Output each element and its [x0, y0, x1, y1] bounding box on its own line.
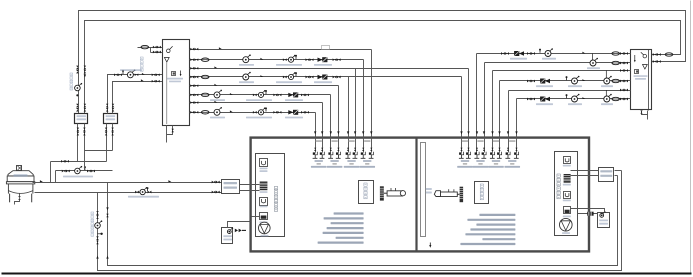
right chamber angle valve glyph pipe 8 [514, 152, 519, 159]
cluster label [276, 81, 302, 83]
wire: left chamber pipe 5 inside drop [348, 137, 350, 153]
left chamber pair tag 3 [348, 140, 354, 142]
wire: AHU-R coil to indoor unit upper [571, 170, 599, 172]
heat exchanger cluster [283, 55, 297, 63]
left chamber valve pipe 2 [321, 148, 323, 151]
wire: AHU-R coil to indoor unit lower [571, 175, 599, 177]
balance valve label [510, 58, 527, 60]
balance valve label [536, 103, 553, 105]
wire: link tower line B [55, 171, 57, 183]
valve pair below pump house 2 right [111, 128, 114, 136]
balance valve [318, 75, 328, 79]
valve pair R2 [620, 62, 628, 65]
left chamber valve pipe 7 [362, 148, 364, 151]
AHU-R icon2 label [563, 184, 571, 186]
flex oval on stub [141, 45, 149, 48]
right chamber valve pipe 5 [491, 148, 493, 151]
wire: right chamber pipe 7 inside drop [508, 137, 510, 153]
text block: right chamber specs [460, 214, 515, 245]
flow arrow up [106, 256, 108, 259]
flow arrow up [96, 256, 98, 259]
AHU-R icon1 label [563, 165, 571, 167]
pump label [239, 81, 254, 83]
flow arrow [142, 73, 145, 75]
valve pair above pump house 2 right [112, 104, 115, 112]
AHU-L icon2 label [260, 191, 268, 193]
cluster label [246, 99, 272, 101]
valve pair [501, 52, 509, 55]
wire: outdoor unit to chamber lower [240, 190, 251, 192]
label in U2 line1 [634, 75, 648, 77]
wire: drop x=330.8 [330, 95, 332, 137]
heat exchanger cluster [253, 107, 267, 115]
pump label [210, 117, 225, 119]
left chamber flow arrow pipe 6 [354, 131, 356, 134]
right chamber pair label row1 1 [461, 160, 469, 162]
make-up tank label line1 [223, 235, 232, 237]
pump [214, 90, 222, 98]
right chamber pair label row2 2 [478, 163, 482, 165]
wire: AHU-R to tank top [571, 209, 605, 213]
right chamber flow arrow pipe 1 [460, 131, 462, 134]
heat exchanger cluster [253, 90, 267, 98]
left chamber pair tag 1 [316, 140, 322, 142]
AHU-R icon3 label [563, 200, 571, 202]
left chamber pair label row3 4 [359, 166, 375, 168]
flexible connector (hatched) [587, 212, 593, 216]
wire: cooling water supply header y=182 [33, 182, 222, 184]
pump [572, 76, 580, 84]
left chamber flow arrow pipe 1 [314, 131, 316, 134]
test coil device left chamber [380, 186, 406, 200]
wire: left chamber pipe 4 inside drop [338, 137, 340, 153]
valve pair [273, 94, 281, 97]
wire: left chamber pipe 8 inside drop [371, 137, 373, 153]
right chamber flow arrow pipe 2 [467, 131, 469, 134]
valve pair [306, 76, 314, 79]
right chamber angle valve glyph pipe 3 [474, 152, 479, 159]
U1 drain valve [171, 129, 174, 133]
flex oval [201, 111, 209, 114]
label: cooling tower [14, 174, 28, 177]
right chamber pair label row1 4 [508, 160, 516, 162]
AHU-R icon 2 (coil, hatched) [564, 174, 571, 183]
pump [545, 48, 553, 56]
label in U1 line1 [167, 78, 183, 80]
box: pump house 2 [104, 114, 118, 124]
left chamber pair label row1 4 [363, 160, 371, 162]
label above pump y=74.8 [120, 69, 142, 71]
wire: pump house 2 right drop [112, 124, 114, 151]
box: pump house 1 [75, 114, 88, 124]
wire: row C y=68.3 [190, 68, 469, 70]
AHU-L fan [259, 222, 271, 234]
flex oval R1 [612, 52, 620, 55]
valve pair R3 [620, 69, 628, 72]
left chamber pair label row2 2 [332, 163, 336, 165]
make-up pump right [600, 211, 606, 217]
wire: brine house link line y=161.3 [51, 161, 107, 163]
pump R4b stem [605, 71, 607, 79]
wire: inner top loop pipe (cooling loop return) [85, 21, 681, 114]
valve pair [527, 52, 535, 55]
wire: outdoor unit to AHU-L coil upper [240, 184, 260, 186]
wire: right chamber pipe 2 inside drop [468, 137, 470, 153]
left chamber flow arrow pipe 3 [330, 131, 332, 134]
pump R4b label [601, 85, 613, 87]
AHU-L icon 1 (sensor) [260, 159, 268, 167]
gauge circle in U1 [167, 46, 173, 52]
valve actuator dot [84, 166, 86, 170]
right chamber pair label row1 2 [476, 160, 484, 162]
AHU-L icon3 label [260, 206, 268, 208]
pump on y=171 [75, 166, 83, 174]
AHU-R fan [560, 218, 573, 231]
wire: right chamber pipe 1 inside drop [461, 137, 463, 153]
wire: drop x=348 [348, 77, 350, 137]
AHU-R icon 3 (sensor) [564, 192, 571, 199]
wire: drop x=371.3 [371, 50, 373, 137]
valve pair on x=84.9 feed [84, 66, 87, 74]
pump R2 stem [592, 54, 594, 61]
valve pair at manifold [190, 111, 198, 114]
pump R6b [604, 94, 612, 102]
black arrows beside make-up tank [235, 229, 246, 233]
line y=171 with pump [56, 170, 113, 172]
make-up tank R label line1 [599, 220, 608, 222]
left chamber valve pipe 3 [330, 148, 332, 151]
wire: outdoor unit to chamber upper [240, 184, 251, 186]
flow arrow down [106, 207, 108, 210]
left chamber angle valve glyph pipe 5 [345, 152, 350, 159]
valve pair at outdoor unit inlet (lower) [212, 191, 220, 194]
pump on riser [95, 220, 103, 228]
junction dot with stem [98, 233, 103, 235]
box: air handling column left [256, 154, 285, 237]
valve pair [333, 76, 341, 79]
label: left of U1 (vertical) [140, 57, 143, 71]
valve pair below pump house 1 left [77, 128, 80, 136]
AHU-L fan label [261, 235, 269, 237]
indoor unit label line2 [600, 175, 612, 177]
flow arrow [141, 79, 144, 81]
wire: drop x=461.5 [461, 77, 463, 137]
outdoor unit label line1 [224, 182, 238, 184]
right chamber angle valve glyph pipe 6 [497, 152, 502, 159]
label: riser pipe name (vertical) [91, 212, 94, 236]
frame bottom border [2, 273, 692, 275]
heat exchanger cluster [283, 72, 297, 80]
icon: sensor block in U2 [635, 70, 639, 74]
wire: right chamber pipe 8 inside drop [516, 137, 518, 153]
wire: pump house 2 left drop [106, 124, 108, 162]
valve pair on stub y=74.8 [114, 73, 122, 76]
valve pair at manifold [190, 58, 198, 61]
AHU-R icon 4 (heater) [564, 207, 571, 214]
label: test unit (vertical) right [480, 184, 483, 200]
right chamber flow arrow pipe 8 [515, 131, 517, 134]
right chamber pair label row3 1 [457, 166, 473, 168]
label pump house 2 line2 [106, 118, 116, 120]
balance valve label [536, 85, 553, 87]
pump cluster on return header [135, 187, 151, 195]
valve pair y=47.1 [153, 46, 161, 49]
AHU-L icon 2 (coil, hatched) [260, 182, 268, 191]
valve pair on riser lower [96, 236, 99, 244]
flow arrow down [84, 74, 86, 77]
wire: U1 drain stub [167, 126, 173, 135]
gauge circle in U2 [641, 52, 647, 58]
valve pair y=52 [153, 51, 161, 54]
valve pair [301, 111, 309, 114]
flow arrow [582, 79, 585, 81]
valve pair at manifold [620, 52, 628, 55]
pump on stub y=74.8 [127, 70, 135, 78]
wire: AHU-R to tank left [578, 213, 598, 215]
right chamber valve pipe 7 [507, 148, 509, 151]
label: manual damper line1 [426, 188, 432, 190]
balance valve label [314, 64, 332, 66]
down arrow in U2 [634, 55, 636, 62]
valve pair at outdoor unit inlet (upper) [212, 181, 220, 184]
wire: row E y=85.7 [190, 85, 339, 87]
wire: right chamber pipe 4 inside drop [484, 137, 486, 153]
valve pair above pump house 2 left [106, 104, 109, 112]
flex oval [201, 75, 209, 78]
left chamber pair label row3 3 [344, 166, 360, 168]
wire: drop x=315.2 [315, 113, 317, 137]
wire: row G y=102.6 [190, 102, 323, 104]
flow arrow [260, 58, 263, 60]
left chamber angle valve glyph pipe 7 [361, 152, 366, 159]
flex oval [201, 58, 209, 61]
left chamber pair label row3 1 [311, 166, 327, 168]
AHU-L icon1 label line2 [260, 170, 268, 172]
level indicator triangle in U1 [164, 58, 169, 63]
pump label [210, 99, 225, 101]
wire: stub jog [150, 48, 152, 53]
make-up pump left [227, 227, 233, 233]
box: glycol distributor left U1 [163, 40, 190, 126]
label: make-up pipe (vertical) [70, 73, 73, 90]
pump label [239, 64, 254, 66]
right chamber pair label row2 1 [463, 163, 467, 165]
level triangle in U2 [643, 65, 648, 70]
AHU-R icon4 label [563, 216, 571, 218]
right chamber pair label row3 4 [504, 166, 520, 168]
right chamber pair tag 3 [493, 140, 499, 142]
wire: drop x=322.2 [322, 103, 324, 137]
pump R2 [590, 58, 598, 66]
left chamber flow arrow pipe 2 [321, 131, 323, 134]
AHU-L icon 4 (heater) [260, 213, 268, 220]
balance valve [318, 58, 328, 62]
flow arrow [230, 93, 233, 95]
wire: left chamber pipe 3 inside drop [330, 137, 332, 153]
wire: pump house 1 left drop [77, 124, 79, 162]
valve pair at distributor [152, 73, 160, 76]
valve pair at manifold [620, 98, 628, 101]
wire: left chamber pipe 6 inside drop [355, 137, 357, 153]
label: manual damper line2 [426, 192, 432, 194]
flow arrow row A [219, 47, 222, 49]
valve pair [333, 58, 341, 61]
text block: left chamber specs [318, 212, 364, 243]
flow arrow [260, 75, 263, 77]
wire: distributor stub to pump house 2 right [113, 82, 163, 114]
wire: indoor unit right stub lower [615, 175, 618, 177]
wire: indoor unit right stub upper [615, 170, 622, 172]
balance valve label [285, 117, 303, 119]
left chamber valve pipe 8 [370, 148, 372, 151]
left chamber valve pipe 5 [347, 148, 349, 151]
wire: drop x=492.5 [492, 71, 494, 137]
pump label [568, 85, 582, 87]
valve pair above pump house 1 right [84, 104, 87, 112]
valve pair on make-up riser [96, 211, 99, 219]
cluster label [276, 64, 302, 66]
flow arrow row G [214, 101, 217, 103]
valve pair at manifold [620, 80, 628, 83]
flow arrow [40, 180, 43, 182]
AHU-L icon4 label [260, 221, 268, 223]
left chamber flow arrow pipe 8 [370, 131, 372, 134]
box: test unit right chamber [475, 182, 489, 204]
label: air handling unit (vertical) right [557, 174, 560, 199]
label in U2 line2 [635, 78, 646, 80]
wire: bottom run to indoor condenser (return) [98, 171, 622, 271]
wire: make-up to AHU-L heater [252, 216, 260, 218]
pump R6b stem [605, 90, 607, 96]
right chamber valve pipe 8 [515, 148, 517, 151]
left chamber pair label row1 2 [330, 160, 338, 162]
wire: drop x=484 [484, 63, 486, 137]
right chamber valve pipe 3 [476, 148, 478, 151]
label in U1 line2 [169, 81, 181, 83]
left chamber valve pipe 6 [354, 148, 356, 151]
flow arrow R1 [582, 52, 585, 54]
wire: left chamber pipe 2 inside drop [322, 137, 324, 153]
left chamber flow arrow pipe 5 [347, 131, 349, 134]
damper panel on divider [421, 143, 426, 237]
wire: U1 expansion stub y=47.1 [138, 47, 163, 49]
wire: link tower line A [50, 162, 52, 183]
left chamber pair label row2 1 [317, 163, 321, 165]
small arrow bottom of divider [429, 243, 431, 248]
pump R6b label [601, 103, 613, 105]
valve [135, 74, 139, 77]
right chamber pair label row3 3 [488, 166, 504, 168]
wire: row A y=49.1 [190, 49, 372, 51]
tower drain pipe with valve [19, 194, 21, 197]
balance valve (mirrored) [540, 97, 550, 101]
wire: row R2 y=63 [485, 62, 631, 64]
right chamber pair label row3 2 [473, 166, 489, 168]
wire: drop x=499.5 [499, 81, 501, 137]
balance valve label [285, 99, 303, 101]
label: air handling unit (vertical) left [274, 187, 277, 212]
right chamber flow arrow pipe 5 [491, 131, 493, 134]
right chamber flow arrow pipe 3 [476, 131, 478, 134]
valve pair y=171 [62, 170, 70, 173]
make-up tank label line2 [223, 239, 232, 241]
right chamber pair tag 2 [477, 140, 483, 142]
flex oval [612, 79, 620, 82]
right chamber pair label row2 3 [494, 163, 498, 165]
valve pair at manifold [190, 76, 198, 79]
left chamber valve pipe 1 [314, 148, 316, 151]
make-up tank R label line2 [599, 223, 608, 225]
right chamber angle valve glyph pipe 4 [481, 152, 486, 159]
label pump house 1 line1 [77, 115, 87, 117]
frame right border [690, 1, 692, 274]
cooling tower CT1 [6, 166, 34, 203]
right chamber angle valve glyph pipe 1 [459, 152, 464, 159]
flow arrow [168, 180, 171, 182]
pump R2 label [587, 67, 600, 69]
pump [572, 94, 580, 102]
pump [243, 72, 251, 80]
pump [243, 54, 251, 62]
wire: pump house 1 right drop [84, 124, 86, 171]
right chamber valve pipe 1 [460, 148, 462, 151]
box: environmental chamber (double) [251, 138, 589, 252]
right chamber valve pipe 6 [498, 148, 500, 151]
test coil device right chamber [434, 187, 463, 203]
box: indoor condensing unit [599, 168, 614, 182]
right chamber flow arrow pipe 7 [507, 131, 509, 134]
right chamber flow arrow pipe 6 [498, 131, 500, 134]
label: test unit (vertical) left [364, 183, 367, 199]
AHU-L icon 3 (sensor) [260, 198, 268, 206]
wire: row R5 y=90 [509, 90, 631, 92]
wire: row R1 y=53.5 [477, 53, 631, 55]
left chamber pair tag 4 [364, 140, 370, 142]
label pump house 1 line2 [77, 118, 87, 120]
valve pair [306, 58, 314, 61]
wire: U2 drain [647, 111, 649, 120]
flow arrow [230, 110, 233, 112]
flex oval U2 right [665, 53, 673, 56]
valve pair at distributor y=81.2 [152, 80, 160, 83]
actuator dot [539, 49, 541, 53]
tag box on row A [322, 46, 330, 50]
wire: drop x=516.5 [516, 99, 518, 137]
balance valve label [314, 81, 332, 83]
left chamber pair label row2 3 [349, 163, 353, 165]
wire: right chamber pipe 3 inside drop [476, 137, 478, 153]
actuator dot [566, 76, 568, 80]
right chamber valve pipe 2 [467, 148, 469, 151]
left chamber angle valve glyph pipe 1 [313, 152, 318, 159]
valve pair [527, 98, 535, 101]
box: make-up tank right [598, 213, 610, 228]
valve pair U2 right lower [653, 60, 661, 63]
wire: bottom run to indoor condenser (supply) [108, 176, 618, 266]
wire: drop x=355.1 [355, 69, 357, 137]
balance valve [288, 110, 298, 114]
box: test unit left chamber [359, 181, 374, 204]
box: make-up tank left [222, 228, 233, 244]
flow arrow [582, 97, 585, 99]
balance valve (mirrored) [514, 51, 524, 55]
box: air handling column right [555, 152, 578, 236]
left chamber pair label row3 2 [327, 166, 343, 168]
chamber divider wall [415, 139, 417, 251]
left chamber angle valve glyph pipe 3 [328, 152, 333, 159]
valve pair [301, 94, 309, 97]
left chamber flow arrow pipe 7 [362, 131, 364, 134]
